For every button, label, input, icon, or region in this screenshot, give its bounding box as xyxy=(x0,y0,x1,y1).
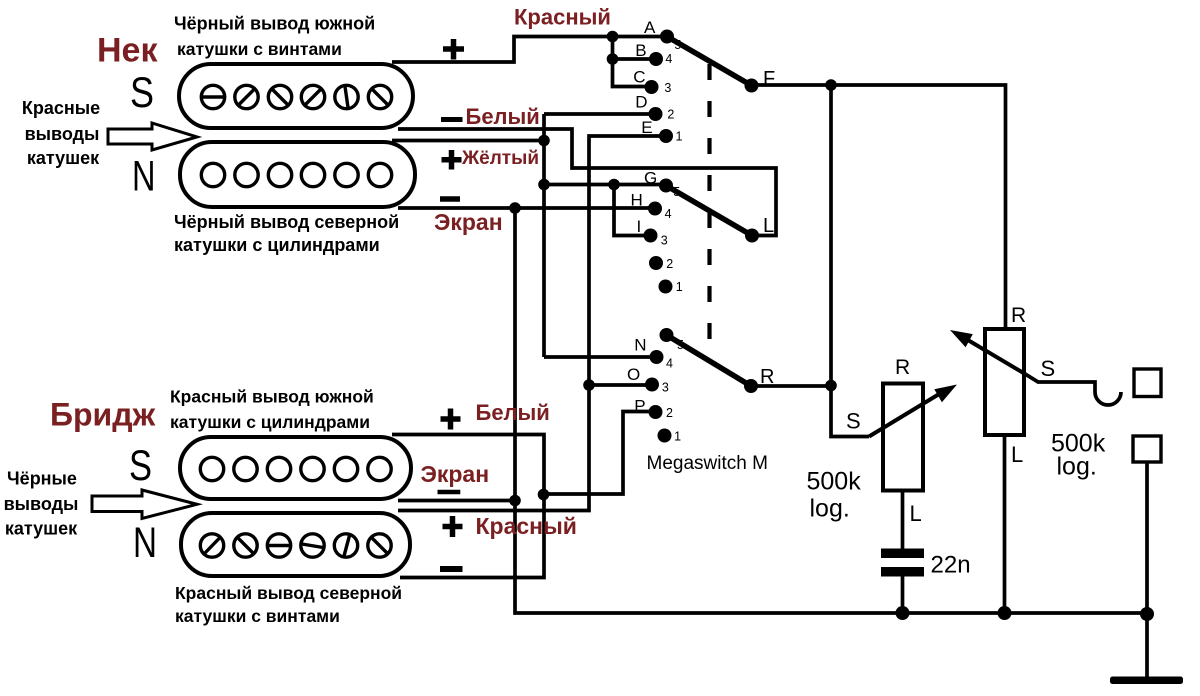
plus symbol bridge red xyxy=(443,516,463,537)
minus symbol bridge black xyxy=(440,566,463,572)
switch arm 5-R xyxy=(667,335,752,386)
svg-text:катушки с цилиндрами: катушки с цилиндрами xyxy=(170,412,370,432)
pickup bridge S coil slug poles xyxy=(200,457,391,480)
switch contact mid pin 2 xyxy=(649,256,663,270)
svg-text:F: F xyxy=(763,68,775,90)
svg-text:катушки с винтами: катушки с винтами xyxy=(175,606,340,626)
plus symbol neck yellow xyxy=(442,150,462,170)
arrow pointer bridge (black coil leads) xyxy=(92,490,197,519)
svg-text:Бридж: Бридж xyxy=(50,397,156,433)
svg-text:R: R xyxy=(895,356,910,379)
potentiometer volume wiper arrow xyxy=(967,340,1026,375)
ground symbol xyxy=(1110,677,1183,685)
svg-text:Чёрные: Чёрные xyxy=(7,469,77,489)
node junction B xyxy=(607,53,619,65)
switch contact R common xyxy=(744,379,758,393)
switch Megaswitch M dashed divider xyxy=(707,64,711,339)
node junction jack ground xyxy=(1140,607,1154,621)
node junction G row right xyxy=(608,179,620,191)
svg-text:N: N xyxy=(132,153,156,201)
wire white lead neck S coil to contact L xyxy=(398,129,776,236)
node junction R row xyxy=(825,380,837,392)
svg-text:O: O xyxy=(627,365,640,384)
switch contact I pin 3 xyxy=(644,229,658,243)
wire row G xyxy=(544,183,666,187)
minus symbol neck shield xyxy=(440,196,460,202)
switch contact D pin 2 xyxy=(649,107,663,121)
svg-text:R: R xyxy=(1011,304,1026,327)
switch contact G pin 5 xyxy=(659,179,673,193)
switch contact N pin 4 xyxy=(650,350,664,364)
svg-text:Белый: Белый xyxy=(466,104,540,129)
wire jack ground terminal to ground xyxy=(1145,462,1149,677)
pickup neck S coil screw poles xyxy=(201,85,391,108)
node junction shield bridge xyxy=(509,495,521,507)
arrow pointer neck (red coil leads) xyxy=(108,123,197,150)
svg-text:4: 4 xyxy=(665,52,672,66)
wire yellow lead neck N coil to vertical bus xyxy=(392,139,544,143)
wire red lead neck S coil to contact A xyxy=(392,37,667,63)
svg-text:Красный: Красный xyxy=(476,513,577,539)
wire vertical F to tone pot S xyxy=(831,85,869,437)
svg-text:Нек: Нек xyxy=(97,32,158,70)
svg-text:G: G xyxy=(644,169,657,188)
svg-text:Красные: Красные xyxy=(22,98,100,118)
wire vertical D/yellow/G/N-row xyxy=(542,114,546,357)
svg-text:выводы: выводы xyxy=(4,494,79,514)
svg-text:катушек: катушек xyxy=(27,148,100,168)
wire volume pot L to ground bus xyxy=(1003,435,1007,613)
svg-text:3: 3 xyxy=(662,381,669,395)
svg-text:L: L xyxy=(763,215,774,237)
wire branch to contact C xyxy=(613,59,652,87)
node junction shield neck xyxy=(509,202,521,214)
switch contact mid pin 1 xyxy=(659,280,673,294)
svg-text:Чёрный вывод северной: Чёрный вывод северной xyxy=(174,212,399,232)
potentiometer tone wiper arrow xyxy=(869,394,940,437)
svg-text:L: L xyxy=(910,501,922,526)
output jack ground terminal xyxy=(1133,436,1161,462)
svg-text:2: 2 xyxy=(666,257,673,271)
node junction yellow xyxy=(538,135,550,147)
pickup neck N coil outline xyxy=(180,142,415,207)
wire ground vertical and ground bus xyxy=(515,208,1147,613)
minus symbol neck white xyxy=(441,117,463,122)
svg-text:S: S xyxy=(130,69,154,117)
svg-text:P: P xyxy=(634,397,645,416)
svg-text:2: 2 xyxy=(667,108,674,122)
wire branch to contact N4 xyxy=(544,355,657,359)
svg-text:5: 5 xyxy=(677,338,684,352)
svg-text:1: 1 xyxy=(676,280,683,294)
svg-text:катушки с винтами: катушки с винтами xyxy=(177,39,342,59)
node junction O row xyxy=(583,379,595,391)
pickup neck N coil slug poles xyxy=(201,163,391,186)
wire branch to contact P2 xyxy=(544,412,656,495)
svg-text:B: B xyxy=(635,41,646,60)
pickup bridge S coil outline xyxy=(180,437,411,499)
wire contact F to volume pot R terminal xyxy=(752,85,1006,329)
switch contact A pin 5 xyxy=(660,30,674,44)
wire white lead bridge S coil down to black lead bridge N coil xyxy=(392,435,544,578)
wire branch G-row down to contact I xyxy=(614,185,651,236)
switch contact low pin 1 xyxy=(658,429,672,443)
node junction red/A xyxy=(607,31,619,43)
svg-text:H: H xyxy=(631,191,643,210)
wire shield lead neck N coil to contact H xyxy=(398,206,655,210)
wire branch to contact B xyxy=(613,37,657,60)
switch contact E pin 1 xyxy=(659,129,673,143)
switch contact L common xyxy=(745,229,759,243)
svg-text:катушек: катушек xyxy=(5,519,78,539)
svg-text:3: 3 xyxy=(661,234,668,248)
svg-text:катушки с цилиндрами: катушки с цилиндрами xyxy=(174,235,380,255)
node junction capacitor ground xyxy=(896,606,910,620)
svg-text:R: R xyxy=(760,366,774,388)
pickup neck S coil outline xyxy=(179,64,413,128)
svg-text:5: 5 xyxy=(674,38,681,52)
switch contact F common xyxy=(745,79,759,93)
svg-text:выводы: выводы xyxy=(25,124,100,144)
svg-text:Экран: Экран xyxy=(421,461,490,487)
potentiometer volume 500k body xyxy=(985,329,1024,435)
svg-text:22n: 22n xyxy=(931,552,971,579)
node junction P branch xyxy=(538,489,550,501)
node junction F row xyxy=(825,79,837,91)
svg-text:1: 1 xyxy=(676,130,683,144)
svg-text:log.: log. xyxy=(810,495,850,523)
svg-text:Megaswitch M: Megaswitch M xyxy=(647,453,768,474)
svg-text:A: A xyxy=(644,18,656,37)
svg-text:Жёлтый: Жёлтый xyxy=(461,148,539,169)
switch contact B pin 4 xyxy=(649,52,663,66)
svg-text:S: S xyxy=(1041,356,1056,381)
minus symbol bridge shield xyxy=(438,490,461,495)
pickup bridge N coil screw poles xyxy=(200,534,391,557)
svg-text:S: S xyxy=(846,409,861,434)
svg-text:1: 1 xyxy=(674,430,681,444)
output jack hot terminal xyxy=(1134,369,1161,397)
wire branch to contact D xyxy=(544,112,656,116)
pickup bridge N coil outline xyxy=(181,513,410,576)
switch contact P pin 2 xyxy=(649,405,663,419)
svg-text:Белый: Белый xyxy=(476,400,550,425)
wire row R to vertical xyxy=(751,384,831,388)
switch contact H pin 4 xyxy=(648,202,662,216)
svg-text:N: N xyxy=(133,519,157,567)
switch arm G-L xyxy=(666,186,752,236)
capacitor 22n plates xyxy=(881,549,924,559)
svg-text:L: L xyxy=(1011,442,1023,467)
svg-text:E: E xyxy=(641,118,652,137)
wire capacitor to ground bus xyxy=(901,576,905,613)
svg-text:C: C xyxy=(633,68,645,87)
wire volume pot S to jack hot with curl xyxy=(1026,375,1121,406)
svg-text:4: 4 xyxy=(666,357,673,371)
svg-text:S: S xyxy=(129,442,152,490)
node junction volume pot ground xyxy=(998,606,1012,620)
plus symbol neck S xyxy=(443,39,464,60)
svg-text:Красный вывод южной: Красный вывод южной xyxy=(170,387,374,407)
node junction G row left xyxy=(538,179,550,191)
svg-text:N: N xyxy=(634,336,646,355)
wire branch to contact O3 xyxy=(589,383,652,387)
svg-text:log.: log. xyxy=(1057,453,1097,481)
svg-text:Чёрный вывод южной: Чёрный вывод южной xyxy=(174,14,375,34)
svg-text:5: 5 xyxy=(673,185,680,199)
plus symbol bridge white xyxy=(441,409,461,430)
svg-text:500k: 500k xyxy=(807,468,862,496)
svg-text:Экран: Экран xyxy=(434,209,503,235)
wire shield lead bridge S coil to ground xyxy=(398,499,515,503)
wire tone pot L to capacitor xyxy=(901,490,905,549)
switch contact low pin 5 xyxy=(660,328,674,342)
svg-text:Красный: Красный xyxy=(514,5,611,30)
switch arm A-F xyxy=(667,37,752,86)
svg-text:D: D xyxy=(635,93,647,112)
svg-text:4: 4 xyxy=(665,207,672,221)
switch contact C pin 3 xyxy=(645,80,659,94)
wire contact E to vertical, O-row, bridge red lead xyxy=(398,136,666,511)
svg-text:2: 2 xyxy=(666,406,673,420)
svg-text:I: I xyxy=(637,217,642,236)
potentiometer tone 500k body xyxy=(883,384,923,491)
svg-text:Красный вывод северной: Красный вывод северной xyxy=(175,583,402,603)
svg-text:3: 3 xyxy=(664,81,671,95)
switch contact O pin 3 xyxy=(645,378,659,392)
